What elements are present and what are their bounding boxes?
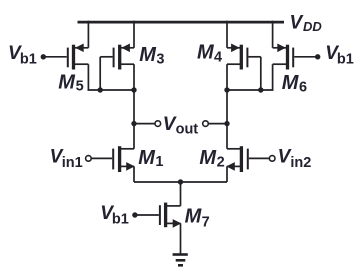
svg-text:2: 2 [217,154,225,170]
VDD label [290,12,323,34]
junction Vout right [224,121,229,126]
label Vb1 left [8,43,37,67]
label Vout [163,114,199,137]
wire M2 gate to Vin2 [249,157,270,159]
svg-text:out: out [176,122,199,138]
svg-text:V: V [290,12,304,33]
svg-text:b1: b1 [112,211,129,227]
node Vb1 M7 dot [132,212,137,217]
svg-text:b1: b1 [20,51,37,67]
transistor M4 [227,44,247,70]
wire Vout right [208,123,227,125]
svg-text:M: M [138,147,156,169]
svg-text:in1: in1 [62,155,83,171]
wire M7 drain up [180,182,182,206]
label Vb1 M7 [100,203,129,228]
terminal Vin2 circle [269,156,275,162]
svg-text:M: M [185,205,203,227]
label Vb1 right [325,43,354,67]
wire left node horizontal [88,89,135,91]
transistor M6 [273,44,294,70]
transistor M1 [113,146,135,172]
wire Vin1 to M1 gate [91,157,112,159]
junction right node tee [224,87,229,92]
wire Vout left [134,123,155,125]
svg-text:M: M [199,147,217,169]
wire M6 drain down [272,64,274,90]
svg-text:in2: in2 [290,155,311,171]
label Vin2 [278,147,312,171]
svg-text:6: 6 [299,79,307,95]
wire M4 drain down to M2 [226,64,228,149]
wire M5 drain down [87,64,89,90]
transistor M5 [68,44,89,70]
wire tail horizontal [134,181,227,183]
wire M4 gate [248,56,260,58]
label M4 [197,42,222,66]
svg-text:M: M [139,44,157,66]
terminal Vout left circle [155,121,161,127]
wire right node horizontal [227,89,274,91]
junction M4 gate node [258,87,263,92]
VDD rail [78,21,285,24]
wire Vb1 to M5 gate [43,56,67,58]
terminal Vout right circle [203,121,209,127]
label M3 [139,44,164,67]
junction Vout left [131,121,136,126]
wire M5 source to rail [87,21,89,48]
svg-text:1: 1 [155,154,163,170]
junction tail node [178,179,183,184]
svg-text:b1: b1 [337,51,354,67]
junction M3 gate node [98,87,103,92]
wire M1 source down [133,166,135,182]
label M2 [199,147,224,170]
transistor M7 [160,203,181,228]
node Vb1 right dot [315,54,320,59]
label M1 [138,147,163,170]
svg-text:3: 3 [156,52,164,68]
svg-text:M: M [197,42,215,64]
wire Vb1 to M7 gate [135,214,159,216]
label M6 [282,72,307,95]
svg-text:4: 4 [214,49,222,65]
ground [173,255,188,266]
transistor M2 [226,146,248,172]
label M7 [185,205,210,230]
wire M3 gate tap down [99,57,101,90]
wire M4 source to rail [226,21,228,48]
wire M6 gate to Vb1 [294,56,318,58]
svg-text:5: 5 [76,79,84,95]
junction left node tee [131,87,136,92]
svg-text:M: M [58,71,76,93]
wire M2 source down [226,166,228,182]
wire M4 gate tap down [260,57,262,90]
wire M3 drain down to M1 [133,64,135,149]
transistor M3 [114,44,134,70]
label Vin1 [50,147,83,171]
svg-text:7: 7 [202,214,210,230]
wire M7 source down [180,223,182,254]
wire M3 source to rail [133,21,135,48]
terminal Vin1 circle [86,156,92,162]
label M5 [58,71,83,94]
wire M6 source to rail [272,21,274,48]
node Vb1 left dot [41,54,46,59]
svg-text:M: M [282,72,300,94]
wire M3 gate [100,56,112,58]
svg-text:DD: DD [303,19,322,34]
